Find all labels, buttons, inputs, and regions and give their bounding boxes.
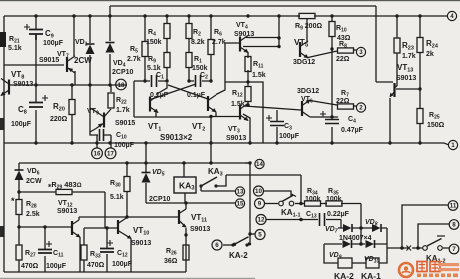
wire KA3 coil stub bottom — [184, 193, 186, 203]
wire R23 column — [396, 16, 398, 85]
svg-text:1.7k: 1.7k — [116, 107, 130, 114]
wire VD5 column — [145, 163, 147, 203]
transistor VT13 — [390, 83, 398, 97]
svg-text:3DG12: 3DG12 — [293, 59, 315, 66]
svg-text:13: 13 — [237, 189, 244, 196]
svg-text:2CW: 2CW — [26, 178, 42, 185]
node 9 terminal — [255, 199, 265, 209]
resistor R20 — [69, 100, 75, 115]
node 12 terminal — [256, 215, 266, 225]
relay contact KA1-1 — [279, 194, 296, 206]
svg-text:22Ω: 22Ω — [336, 98, 350, 105]
wire node13 row — [201, 190, 235, 192]
resistor R26 — [183, 245, 189, 260]
wire lower rail — [19, 162, 250, 164]
resistor R12 — [245, 87, 251, 102]
node 2 terminal — [356, 103, 365, 112]
plus mark C11 — [46, 241, 52, 247]
wire C13 drop — [340, 220, 342, 229]
node 6 terminal — [212, 240, 222, 250]
wire node5 stub — [250, 233, 255, 235]
capacitor C4 — [325, 120, 339, 124]
wire VT5 base feed — [243, 46, 280, 48]
wire R20 column — [71, 85, 73, 143]
node 5 terminal — [255, 230, 265, 240]
transistor VT8 — [0, 79, 9, 97]
diode VD1 — [86, 44, 95, 54]
svg-text:4: 4 — [450, 13, 454, 20]
wire relay coil link — [352, 262, 366, 264]
wire relay drive row — [146, 202, 235, 204]
wire R34 R35 row — [301, 175, 361, 204]
svg-text:16: 16 — [94, 151, 101, 158]
svg-text:15: 15 — [237, 201, 244, 208]
node 17 terminal — [105, 148, 116, 159]
wire VT5 emitter to R8 — [308, 51, 337, 58]
node 11 terminal — [448, 201, 458, 211]
resistor R27 — [16, 245, 22, 260]
resistor R23 — [394, 38, 400, 53]
transistor VT3 — [240, 104, 249, 122]
wire R6 column — [210, 16, 212, 81]
wire mid rail — [4, 143, 449, 145]
wire VT3 base feed — [0, 0, 1, 1]
wire bridge top row — [338, 227, 387, 229]
plus mark C8 — [42, 95, 48, 101]
node 16 terminal — [92, 148, 103, 159]
svg-text:KA-2: KA-2 — [229, 251, 248, 260]
wire VT7 collector column — [73, 16, 75, 56]
plus mark C3 — [266, 115, 272, 121]
wire R5 column — [144, 16, 146, 81]
wire VT13 feed vertical — [375, 6, 377, 82]
wire node10 row — [264, 191, 291, 196]
svg-text:14: 14 — [256, 161, 263, 168]
wire VT12 collector — [78, 217, 80, 220]
svg-text:S9013: S9013 — [396, 75, 416, 82]
svg-text:150k: 150k — [192, 65, 208, 72]
relay contact KA1-2 — [407, 236, 446, 251]
diode bridge 1N4007 b — [372, 224, 381, 232]
diode bridge 1N4007 c — [343, 240, 352, 248]
svg-text:⁎R29 483Ω: ⁎R29 483Ω — [48, 180, 82, 191]
svg-text:0.47µF: 0.47µF — [341, 127, 364, 134]
wire R33 column — [83, 228, 85, 272]
resistor R1 — [186, 53, 192, 68]
wire bridge left leg — [324, 244, 338, 263]
capacitor C3 — [270, 122, 284, 126]
wire R24 column — [419, 16, 421, 89]
resistor R6 — [208, 40, 214, 55]
svg-text:1N4007×4: 1N4007×4 — [339, 235, 372, 242]
wire VT4 base feedback — [216, 43, 263, 143]
svg-text:KA-1: KA-1 — [361, 271, 381, 279]
wire C10 row — [90, 85, 111, 135]
resistor R25 — [417, 109, 423, 124]
wire R30 column — [126, 163, 128, 217]
svg-text:3: 3 — [359, 49, 363, 56]
wire cross coupling a — [168, 85, 208, 99]
wire C1 link — [134, 80, 167, 82]
capacitor C1 — [152, 75, 157, 87]
wire VT13 emitter drop — [389, 98, 391, 143]
svg-text:2.7k: 2.7k — [127, 56, 141, 63]
resistor R4 — [164, 24, 170, 39]
wire R9b jumper — [297, 15, 300, 17]
wire emitter rail — [134, 116, 211, 118]
wire R7 out — [354, 105, 357, 107]
resistor R2 — [186, 24, 192, 39]
svg-text:5.1k: 5.1k — [110, 194, 124, 201]
relay coil KA-1 box — [366, 258, 379, 268]
transistor VT9 — [96, 112, 104, 129]
svg-text:S9013: S9013 — [57, 208, 77, 215]
svg-text:6: 6 — [215, 242, 219, 249]
capacitor C8 — [29, 103, 43, 108]
wire VT10 emitter drop — [130, 239, 132, 272]
svg-text:S9013: S9013 — [226, 135, 246, 142]
capacitor C11 — [38, 250, 52, 254]
svg-text:36Ω: 36Ω — [164, 258, 178, 265]
wire KA3 contact link — [200, 186, 202, 191]
wire VT4 emitter to R11 — [247, 52, 249, 107]
wire node16 stub — [96, 135, 98, 148]
wire VT12 emitter drop — [79, 237, 81, 272]
wire R4 R9 column — [166, 16, 168, 81]
wire VT3 collector to VT6 base — [244, 106, 301, 110]
svg-text:7: 7 — [452, 246, 456, 253]
svg-text:100µF: 100µF — [11, 121, 32, 128]
wire R8 out — [354, 49, 357, 51]
svg-text:470Ω: 470Ω — [21, 263, 39, 270]
relay contact KA3 — [202, 167, 223, 186]
node 1 terminal — [448, 140, 457, 149]
wire node17 stub — [110, 135, 112, 148]
svg-text:1.5k: 1.5k — [252, 72, 266, 79]
svg-text:100µF: 100µF — [43, 40, 64, 47]
svg-text:18: 18 — [118, 82, 125, 89]
svg-text:2CP10: 2CP10 — [149, 196, 171, 203]
resistor R35 — [326, 201, 342, 206]
wire KA1-1 out — [295, 203, 301, 205]
wire KA3 coil stub top — [183, 163, 185, 177]
svg-text:150k: 150k — [146, 39, 162, 46]
resistor R5 — [142, 42, 148, 57]
svg-text:11: 11 — [450, 203, 457, 210]
svg-text:12: 12 — [258, 217, 265, 224]
wire bridge bottom row — [324, 243, 387, 245]
svg-text:2CW: 2CW — [74, 56, 92, 65]
diode VD5 — [142, 173, 151, 183]
wire C11 column — [44, 227, 46, 272]
watermark logo — [399, 262, 459, 278]
resistor R21 — [0, 32, 6, 47]
wire C1 left vertical — [133, 81, 135, 117]
plus mark C9 — [24, 24, 30, 30]
svg-text:220Ω: 220Ω — [50, 116, 68, 123]
wire VT3 base — [211, 116, 239, 118]
wire upper rail — [110, 5, 376, 7]
wire VT5 collector — [306, 19, 308, 42]
svg-text:17: 17 — [107, 151, 114, 158]
node 10 terminal — [254, 186, 264, 196]
resistor R8 — [338, 48, 354, 53]
wire node14 link — [245, 162, 250, 164]
svg-text:KA-2: KA-2 — [334, 271, 354, 279]
capacitor C13 — [320, 213, 325, 226]
svg-text:2k: 2k — [426, 51, 434, 58]
wire VD4 column — [109, 6, 111, 85]
wire R26 gap — [185, 244, 187, 246]
svg-text:S9013: S9013 — [131, 240, 151, 247]
svg-text:5.1k: 5.1k — [8, 45, 22, 52]
capacitor C2 — [196, 75, 201, 87]
wire VT3 emitter drop — [243, 114, 250, 143]
svg-text:S9013×2: S9013×2 — [160, 133, 193, 142]
svg-text:470Ω: 470Ω — [87, 262, 105, 269]
diode VD4 — [106, 43, 115, 53]
wire node8 row — [418, 224, 449, 248]
wire R22 column — [104, 85, 111, 117]
wire C3 column — [276, 110, 278, 143]
wire KA2 column — [249, 163, 251, 242]
wire C9 column — [35, 16, 37, 85]
plus mark C4 — [320, 111, 326, 117]
wire output row — [387, 247, 449, 249]
svg-text:S9015: S9015 — [39, 57, 59, 64]
svg-text:100µF: 100µF — [279, 133, 300, 140]
svg-text:5: 5 — [258, 232, 262, 239]
wire VT10 collector row — [79, 216, 178, 218]
resistor R10 — [329, 22, 335, 37]
wire VT1 collector — [156, 83, 167, 95]
wire VT13 collector node — [396, 88, 420, 90]
transistor VT12 — [72, 220, 80, 237]
resistor R34 — [305, 201, 321, 206]
svg-text:*: * — [11, 196, 15, 206]
wire VT12 base — [19, 226, 71, 228]
wire R25 column — [419, 89, 421, 143]
scan artifact left edge a — [0, 118, 4, 130]
wire left border — [3, 16, 5, 272]
wire VT7 emitter drop — [74, 71, 76, 85]
transistor VT10 — [118, 218, 131, 239]
relay coil KA3 box — [174, 177, 196, 193]
svg-text:2CP10: 2CP10 — [112, 69, 134, 76]
diode VD6 — [15, 170, 24, 180]
wire R29 branch vertical — [104, 192, 106, 228]
svg-text:S9013: S9013 — [234, 31, 254, 38]
wire bottom rail — [4, 271, 186, 273]
wire node6 stub — [223, 244, 232, 246]
svg-text:8: 8 — [452, 222, 456, 229]
transistor VT7 — [67, 56, 75, 73]
plus mark C12 — [107, 240, 113, 246]
wire top supply rail — [4, 15, 447, 17]
wire rail link — [145, 143, 147, 163]
wire node9 row — [265, 203, 278, 205]
node 14 terminal — [255, 159, 264, 168]
wire KA3 contact out — [216, 175, 226, 186]
wire C2 link — [189, 80, 211, 82]
wire bridge right leg — [379, 228, 387, 263]
wire VT4 collector — [246, 37, 279, 39]
resistor R29 — [56, 189, 72, 194]
svg-text:2.5k: 2.5k — [26, 211, 40, 218]
wire C8 column — [35, 85, 37, 143]
svg-text:S9015: S9015 — [115, 120, 135, 127]
wire right mid column — [210, 117, 212, 163]
wire cross coupling b — [149, 84, 196, 100]
wire VT11 collector — [185, 204, 187, 210]
capacitor C12 — [100, 249, 114, 253]
scan artifact left edge b — [0, 226, 4, 237]
svg-text:0.1µF: 0.1µF — [187, 92, 206, 99]
svg-text:1: 1 — [451, 142, 455, 149]
capacitor C10 — [100, 129, 104, 141]
svg-text:2.7k: 2.7k — [212, 39, 226, 46]
wire VD6 R28 R27 column — [18, 163, 20, 272]
wire bridge mid vertical — [360, 204, 362, 245]
node 13 terminal — [235, 187, 244, 196]
svg-text:0.1µF: 0.1µF — [150, 92, 169, 99]
svg-text:100µF: 100µF — [114, 142, 135, 149]
svg-text:100µF: 100µF — [112, 261, 133, 268]
resistor R7 — [338, 104, 354, 109]
svg-text:10: 10 — [255, 188, 262, 195]
resistor R11 — [245, 57, 251, 72]
resistor R9b — [164, 53, 170, 68]
svg-text:5.1k: 5.1k — [147, 65, 161, 72]
wire VT2 emitter drop — [215, 113, 217, 118]
resistor R9 rail — [299, 13, 315, 18]
transistor VT4 — [240, 36, 249, 54]
svg-text:100k: 100k — [305, 196, 321, 203]
wire R29 row — [19, 191, 105, 193]
wire C12 column — [106, 228, 108, 272]
diode bridge 1N4007 a — [343, 224, 352, 232]
wire VT10 base row — [84, 227, 117, 229]
transistor VT2 — [208, 95, 217, 113]
svg-text:S9013: S9013 — [13, 81, 33, 88]
transistor VT5 — [300, 41, 309, 59]
svg-text:2: 2 — [359, 105, 363, 112]
wire VT11 emitter drop — [185, 228, 187, 272]
node 7 terminal — [449, 244, 459, 254]
wire VT6 emitter to R7 — [310, 101, 337, 106]
wire VT6 collector — [310, 116, 338, 118]
resistor R24 — [417, 38, 423, 53]
svg-text:3DG12: 3DG12 — [297, 88, 319, 95]
node 4 terminal — [447, 11, 456, 20]
svg-text:150Ω: 150Ω — [427, 122, 445, 129]
transistor VT11 — [179, 209, 186, 227]
wire base line VT8 — [10, 84, 127, 86]
wire VT7 base — [4, 64, 64, 66]
resistor R33 — [81, 245, 87, 260]
wire node11 row — [402, 205, 448, 248]
svg-text:1.5k: 1.5k — [231, 101, 245, 108]
transistor VT1 — [150, 96, 159, 114]
svg-text:1.7k: 1.7k — [402, 53, 416, 60]
wire KA1-1 feed row — [226, 174, 301, 176]
svg-text:9: 9 — [258, 201, 262, 208]
svg-text:100µF: 100µF — [46, 263, 67, 270]
resistor R28 — [16, 200, 22, 215]
capacitor C9 — [29, 30, 43, 41]
node 15 terminal — [235, 199, 244, 208]
node 18 terminal — [116, 79, 127, 90]
wire VT4 collector riser — [278, 16, 280, 47]
resistor R30 — [124, 177, 130, 192]
relay contact KA-2 left — [235, 237, 249, 245]
wire R2 R1 column — [188, 16, 190, 81]
node 3 terminal — [356, 47, 365, 56]
svg-text:100k: 100k — [326, 196, 342, 203]
wire VT13 base — [376, 81, 393, 83]
relay coil KA-2 box — [338, 258, 352, 268]
svg-text:0.22µF: 0.22µF — [327, 211, 350, 218]
wire VT1 emitter drop — [155, 113, 157, 118]
resistor R22 — [108, 93, 114, 108]
node 8 terminal — [449, 220, 459, 230]
svg-text:22Ω: 22Ω — [336, 56, 350, 63]
wire R10 column — [331, 16, 333, 143]
wire VD1 column — [89, 16, 91, 85]
diode bridge 1N4007 d — [366, 240, 375, 248]
transistor VT6 — [302, 100, 311, 118]
wire node12 row C13 — [266, 219, 341, 221]
svg-text:S9013: S9013 — [190, 226, 210, 233]
svg-text:8.2k: 8.2k — [191, 39, 205, 46]
